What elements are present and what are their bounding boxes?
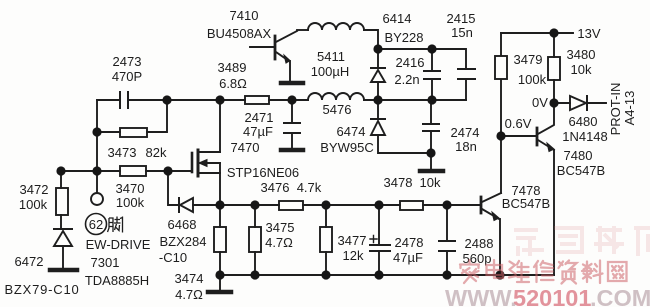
svg-text:100k: 100k	[518, 72, 547, 87]
svg-text:6414: 6414	[383, 11, 412, 26]
svg-text:BY228: BY228	[384, 30, 423, 45]
node 2416 top	[427, 44, 436, 53]
svg-text:2.2n: 2.2n	[394, 72, 419, 87]
wire to damper node	[364, 30, 378, 49]
node damper bottom	[373, 95, 382, 104]
node rail 2478	[374, 270, 383, 279]
label pin 62 circle	[86, 214, 107, 235]
node 3489-5476-2471	[287, 95, 296, 104]
svg-text:STP16NE06: STP16NE06	[227, 165, 299, 180]
node mosfet drain	[215, 95, 224, 104]
node rail 7478e	[495, 270, 504, 279]
svg-text:0V: 0V	[532, 95, 548, 110]
resistor 3470	[120, 166, 146, 176]
svg-text:47µF: 47µF	[243, 124, 273, 139]
resistor 3474	[214, 205, 226, 275]
svg-text:100µH: 100µH	[311, 64, 350, 79]
node 3473 left	[92, 127, 101, 136]
svg-text:6.8Ω: 6.8Ω	[219, 76, 247, 91]
watermark url	[445, 285, 650, 307]
svg-text:3474: 3474	[175, 271, 204, 286]
node damper top	[373, 44, 382, 53]
svg-text:2488: 2488	[465, 236, 494, 251]
svg-text:6468: 6468	[168, 217, 197, 232]
svg-text:82k: 82k	[146, 145, 167, 160]
capacitor 2488	[439, 205, 455, 275]
svg-text:3479: 3479	[514, 52, 543, 67]
svg-text:BC547B: BC547B	[557, 163, 605, 178]
mosfet 7470	[192, 100, 220, 205]
svg-text:3489: 3489	[218, 60, 247, 75]
transistor 7478	[448, 193, 501, 275]
resistor 3477	[320, 205, 332, 275]
svg-text:5476: 5476	[323, 102, 352, 117]
svg-text:2478: 2478	[395, 235, 424, 250]
wire 3470 row	[61, 170, 192, 172]
resistor 3473	[97, 100, 167, 137]
svg-text:4.7k: 4.7k	[297, 180, 322, 195]
capacitor 2415	[458, 69, 475, 100]
node 2474 bottom	[426, 148, 435, 157]
node 2478 top	[374, 200, 383, 209]
resistor 3472	[56, 188, 68, 228]
node 0V	[549, 98, 558, 107]
node rail 3477	[321, 270, 330, 279]
svg-text:2473: 2473	[113, 54, 142, 69]
resistor 3479	[495, 56, 507, 79]
diode 6480	[554, 96, 606, 110]
svg-text:BYW95C: BYW95C	[320, 140, 373, 155]
node gate branch	[163, 166, 172, 175]
svg-text:BZX284: BZX284	[160, 234, 207, 249]
wire 0.6V column	[500, 33, 502, 193]
svg-text:BZX79-C10: BZX79-C10	[4, 282, 79, 297]
wire 13V rail	[501, 32, 573, 34]
svg-text:470P: 470P	[112, 69, 142, 84]
node 2416 bottom	[427, 95, 436, 104]
node rail 3474	[215, 270, 224, 279]
svg-text:2474: 2474	[451, 125, 480, 140]
ground under 2474	[420, 153, 443, 171]
node 3472 branch	[56, 166, 65, 175]
capacitor C2473	[97, 92, 167, 108]
svg-text:12k: 12k	[343, 248, 364, 263]
node 13V	[549, 28, 558, 37]
svg-text:6472: 6472	[15, 254, 44, 269]
svg-text:2471: 2471	[245, 110, 274, 125]
resistor 3480	[548, 33, 560, 103]
svg-text:3472: 3472	[20, 182, 49, 197]
ground bottom rail	[208, 275, 231, 292]
svg-text:520101: 520101	[513, 285, 591, 307]
svg-text:3473: 3473	[108, 145, 137, 160]
wire left vertical node column	[96, 100, 98, 193]
svg-text:3477: 3477	[338, 233, 367, 248]
char jia	[460, 260, 479, 283]
svg-text:PROT-IN: PROT-IN	[608, 83, 623, 136]
node source-6468	[215, 200, 224, 209]
wire mid row	[364, 99, 466, 101]
terminal circle pin62	[91, 193, 103, 205]
char dian	[487, 260, 504, 278]
svg-text:62: 62	[89, 217, 103, 232]
svg-text:13V: 13V	[577, 26, 600, 41]
wire top row right	[378, 49, 466, 68]
svg-text:3478: 3478	[384, 175, 413, 190]
svg-text:4.7Ω: 4.7Ω	[175, 287, 203, 302]
diode 6468	[179, 198, 220, 212]
ground under 2471	[281, 148, 303, 153]
svg-text:4.7Ω: 4.7Ω	[265, 235, 293, 250]
diode 6414	[371, 49, 385, 100]
wire top row	[129, 99, 245, 101]
char zi	[559, 261, 577, 284]
diode 6474	[371, 100, 431, 153]
transistor 7410	[250, 31, 297, 81]
wire collector top	[297, 29, 308, 31]
svg-text:5411: 5411	[317, 49, 345, 64]
label jiao (vector glyph)	[108, 217, 123, 233]
transistor 7480	[501, 103, 554, 275]
resistor 3489	[245, 96, 308, 104]
svg-text:A4-13: A4-13	[622, 91, 637, 126]
svg-text:18n: 18n	[455, 139, 477, 154]
svg-text:7470: 7470	[231, 140, 260, 155]
ground under 6472	[50, 268, 77, 273]
char xiu	[534, 261, 554, 282]
wire base row	[220, 204, 480, 206]
capacitor 2478	[370, 205, 390, 275]
svg-text:6480: 6480	[569, 114, 598, 129]
node 3475 top	[250, 200, 259, 209]
inductor 5411	[308, 23, 364, 30]
svg-text:47µF: 47µF	[393, 250, 423, 265]
svg-text:3470: 3470	[116, 181, 145, 196]
svg-text:BU4508AX: BU4508AX	[207, 26, 272, 41]
svg-text:1N4148: 1N4148	[562, 129, 608, 144]
char wang	[608, 262, 627, 281]
node 2488 top	[442, 200, 451, 209]
svg-text:6474: 6474	[337, 124, 366, 139]
svg-text:-C10: -C10	[159, 250, 187, 265]
wire gate column	[168, 171, 178, 205]
svg-text:7480: 7480	[564, 148, 593, 163]
svg-text:100k: 100k	[19, 197, 48, 212]
wire branch to 3472	[60, 171, 62, 188]
svg-text:2416: 2416	[396, 55, 425, 70]
svg-text:0.6V: 0.6V	[505, 116, 532, 131]
node 3477 top	[321, 200, 330, 209]
watermark faint upper remnants	[514, 226, 650, 256]
svg-text:15n: 15n	[451, 25, 473, 40]
inductor 5476	[308, 93, 364, 100]
svg-text:3480: 3480	[567, 47, 596, 62]
node 3470 left	[92, 166, 101, 175]
svg-text:10k: 10k	[420, 175, 441, 190]
svg-text:WWW.: WWW.	[445, 285, 517, 307]
node 0.6V	[496, 131, 505, 140]
svg-text:3476: 3476	[261, 180, 290, 195]
svg-text:TDA8885H: TDA8885H	[85, 273, 149, 288]
char wei	[509, 261, 529, 282]
resistor 3476	[279, 201, 303, 210]
watermark chinese row (vector glyphs 家电维修资料网)	[460, 260, 627, 284]
ground under 7410 emitter	[281, 81, 303, 86]
svg-text:BC547B: BC547B	[502, 196, 550, 211]
svg-text:10k: 10k	[571, 62, 592, 77]
char liao	[582, 261, 603, 284]
wire bottom rail	[220, 274, 554, 276]
resistor 3478	[400, 201, 423, 210]
node top cap-3473 join	[162, 95, 171, 104]
node rail 2488	[442, 270, 451, 279]
svg-text:7410: 7410	[230, 8, 259, 23]
svg-text:2415: 2415	[447, 11, 476, 26]
capacitor 2471	[284, 100, 300, 147]
resistor 3475	[249, 205, 261, 275]
svg-text:EW-DRIVE: EW-DRIVE	[86, 237, 151, 252]
node rail 3475	[250, 270, 259, 279]
svg-text:7301: 7301	[91, 255, 120, 270]
svg-text:.COM: .COM	[590, 285, 650, 307]
diode 6472	[54, 229, 72, 268]
svg-text:3475: 3475	[266, 220, 295, 235]
capacitor 2416	[424, 49, 440, 100]
capacitor 2474	[423, 100, 439, 153]
svg-text:100k: 100k	[116, 195, 145, 210]
